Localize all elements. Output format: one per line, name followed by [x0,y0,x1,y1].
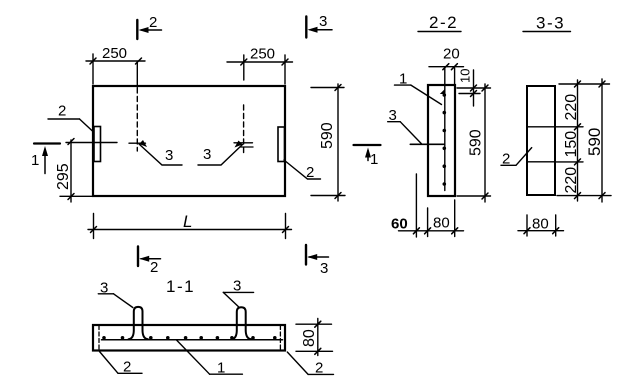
lifting loop right (item 3) [232,307,252,339]
section mark 3 top [305,17,307,38]
svg-text:1-1: 1-1 [166,277,195,296]
dimension 20 top [454,68,456,84]
svg-text:3: 3 [319,13,327,30]
svg-text:80: 80 [433,215,450,232]
svg-text:1: 1 [31,152,39,169]
leader to loop 3 right [198,145,243,166]
svg-text:295: 295 [55,163,72,190]
dimension 590 section 2-2 [457,195,491,197]
dimension chain 220/150/220 [559,83,610,85]
bar section dots 1-1 [102,336,276,340]
svg-text:2: 2 [306,164,314,181]
svg-text:80: 80 [532,216,549,233]
longitudinal bar (item 1) 1-1 [102,339,283,341]
svg-text:2: 2 [123,359,131,376]
svg-text:590: 590 [585,128,604,156]
leader 2 bottom-left 1-1 [100,352,119,374]
svg-text:20: 20 [443,46,460,63]
svg-text:2: 2 [315,360,323,377]
dimension 295 left [66,142,117,144]
embedded plate right dashed 1-1 [279,326,281,351]
dimension 250 right [284,55,286,84]
leader 3 left 1-1 [98,293,113,295]
division line lower 3-3 [527,161,555,163]
svg-text:590: 590 [319,122,336,149]
lifting loop left (item 3) [129,307,149,339]
panel outline plan [93,86,285,196]
svg-text:1: 1 [217,360,225,377]
svg-text:2: 2 [58,103,66,120]
embedded plate left dashed 1-1 [98,326,100,351]
svg-text:2: 2 [502,151,510,168]
embedded plate left (item 2) [94,127,101,162]
svg-text:3: 3 [203,146,211,163]
leader 1 section 2-2 [395,84,411,86]
svg-text:590: 590 [468,129,485,156]
leader 1 bottom-center 1-1 [177,340,210,374]
dimension L bottom [93,214,95,239]
svg-text:2-2: 2-2 [429,13,458,32]
svg-text:3: 3 [389,107,397,124]
leader 2 plan right [284,160,321,179]
section mark 2 bottom [137,247,139,267]
svg-text:3: 3 [233,278,241,295]
transverse bar (item 3) in 2-2 [410,143,444,145]
bar section dots 2-2 [440,89,446,186]
svg-text:3: 3 [320,260,328,277]
cross tick on trace 3 (double) [234,142,253,144]
section mark 1 left [34,142,60,144]
section 2-2 outline [428,85,455,196]
svg-text:L: L [183,212,192,231]
svg-text:1: 1 [370,151,378,168]
svg-text:2: 2 [149,14,157,31]
svg-text:220: 220 [563,167,580,194]
svg-text:60: 60 [391,216,408,233]
svg-text:3: 3 [100,280,108,297]
vertical bar (item 1) in 2-2 [444,67,446,191]
leader to loop 3 left [139,144,182,165]
leader 2 section 3-3 [501,164,516,166]
svg-text:3-3: 3-3 [536,14,565,33]
dimension 250 left [92,54,94,84]
svg-text:250: 250 [102,45,127,62]
svg-text:10: 10 [458,69,473,83]
svg-text:250: 250 [250,46,275,63]
dimension 590 plan right [311,87,344,89]
section trace 3 (dashed) [243,105,245,153]
cross tick on trace 2 [129,142,146,144]
section mark 1 middle [354,144,381,146]
section mark 2 top [136,20,138,39]
leader 2 top-left [48,118,80,120]
svg-text:150: 150 [563,131,580,158]
section trace 2 (dashed) [136,88,138,151]
svg-text:1: 1 [399,71,407,88]
svg-text:2: 2 [150,259,158,276]
division line upper 3-3 [527,126,555,128]
dimension 590 section 3-3 [601,79,603,202]
dimension 80 bottom 3-3 [526,215,528,236]
embedded plate right (item 2) [278,127,285,162]
dimension 10 right top [457,87,491,89]
svg-text:3: 3 [165,147,173,164]
section mark 3 bottom [305,245,307,265]
dimension 80 right 1-1 [296,323,332,325]
leader 3 section 2-2 [388,121,401,123]
leader 2 bottom-right 1-1 [287,352,308,374]
leader 3 right 1-1 [223,291,253,293]
bottom dims 60 / 80 of 2-2 [415,174,417,237]
svg-text:220: 220 [563,94,580,121]
section 3-3 outline [527,86,555,195]
svg-text:80: 80 [301,329,318,347]
slab outline 1-1 [93,325,285,351]
